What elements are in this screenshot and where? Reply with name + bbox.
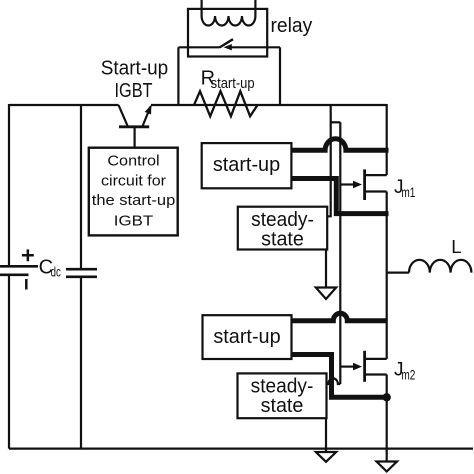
svg-text:start-up: start-up xyxy=(213,326,280,348)
relay box xyxy=(188,9,267,57)
wire second rail upper xyxy=(80,105,82,269)
ground under steady-state 1 xyxy=(316,288,336,300)
transistor J_m2 source lead xyxy=(366,373,387,375)
wire left rail lower xyxy=(8,275,10,449)
ground under steady-state 2 xyxy=(316,452,336,462)
wire top bus left segment xyxy=(9,104,119,106)
transistor J_m2 channel bar xyxy=(363,351,366,382)
wire gate rail B xyxy=(339,122,341,384)
battery V_dc positive plate xyxy=(0,265,38,268)
wire top bus right segment xyxy=(151,104,387,106)
battery V_dc negative plate xyxy=(0,273,29,276)
steady-state box 2 xyxy=(238,373,327,418)
start-up box 1 xyxy=(202,143,292,188)
svg-text:m1: m1 xyxy=(401,185,415,200)
relay switch right lead xyxy=(231,46,281,48)
battery minus tick xyxy=(25,279,28,290)
svg-text:start-up: start-up xyxy=(211,75,255,92)
transistor J_m1 channel bar xyxy=(363,169,366,200)
svg-text:state: state xyxy=(261,229,304,251)
svg-text:dc: dc xyxy=(51,264,61,279)
wire steady-state 2 to ground xyxy=(325,418,327,452)
relay switch left lead xyxy=(178,46,219,48)
ground at J_m2 source xyxy=(377,462,398,472)
transistor Q1 start-up IGBT collector lead xyxy=(119,105,128,126)
wire B hook hop into steady-state 2 xyxy=(327,378,341,384)
wire relay left drop xyxy=(177,47,179,105)
svg-text:IGBT: IGBT xyxy=(115,80,153,102)
wire J_m1 drain rail from top bus xyxy=(386,104,388,175)
relay switch lever xyxy=(220,39,234,47)
transistor Q1 base bar xyxy=(119,125,149,128)
svg-text:Control: Control xyxy=(107,153,159,170)
svg-text:m2: m2 xyxy=(401,368,415,383)
svg-text:IGBT: IGBT xyxy=(114,213,153,230)
transistor J_m2 drain lead xyxy=(366,358,387,360)
transistor Q1 emitter arrowhead xyxy=(145,105,152,115)
svg-text:L: L xyxy=(451,236,461,257)
relay coil lead right xyxy=(254,0,256,16)
thick wire start-up 1 top with hop xyxy=(291,139,389,151)
junction dot J_m2 source xyxy=(383,393,391,401)
wire midpoint rail J_m1 source to J_m2 drain xyxy=(386,192,388,359)
transistor Q1 emitter lead xyxy=(143,106,151,126)
svg-text:start-up: start-up xyxy=(213,154,280,176)
inductor L lead xyxy=(387,272,409,274)
start-up box 2 xyxy=(203,315,292,359)
wire relay right drop xyxy=(279,47,281,105)
wire steady-state 1 to ground xyxy=(325,250,327,288)
wire node A drop from top bus to steady-state 1 xyxy=(327,105,331,216)
relay switch arrowhead xyxy=(224,44,232,50)
wire J_m2 source rail to ground xyxy=(386,375,388,462)
svg-text:state: state xyxy=(261,395,304,417)
wire left rail upper xyxy=(8,104,10,266)
svg-text:the start-up: the start-up xyxy=(92,192,176,209)
transistor J_m1 drain lead xyxy=(366,174,387,176)
svg-text:Start-up: Start-up xyxy=(101,58,169,80)
wire stub node A to gate rail B xyxy=(331,121,341,123)
thick wire start-up 2 top with hop xyxy=(291,313,387,321)
transistor J_m2 gate lead with arrow xyxy=(340,366,356,368)
svg-text:circuit for: circuit for xyxy=(101,173,166,190)
transistor Q1 base lead to control box xyxy=(134,127,136,148)
wire bottom bus xyxy=(9,448,473,450)
battery plus label xyxy=(22,249,34,261)
capacitor C_dc top plate xyxy=(66,268,97,271)
wire second rail lower xyxy=(80,277,82,449)
steady-state box 1 xyxy=(238,207,327,250)
capacitor C_dc bottom plate xyxy=(66,275,97,278)
transistor J_m1 gate lead with arrow xyxy=(340,183,356,185)
control circuit box xyxy=(89,148,178,236)
thick wire start-up 1 bottom L-path xyxy=(291,179,389,214)
relay coil lead left xyxy=(201,0,203,16)
relay coil K1 xyxy=(202,16,256,26)
thick wire start-up 2 bottom L-path xyxy=(291,355,387,398)
resistor R_start-up xyxy=(194,91,258,116)
inductor L xyxy=(409,260,471,273)
transistor J_m1 source lead xyxy=(366,190,387,192)
svg-text:relay: relay xyxy=(271,15,313,37)
